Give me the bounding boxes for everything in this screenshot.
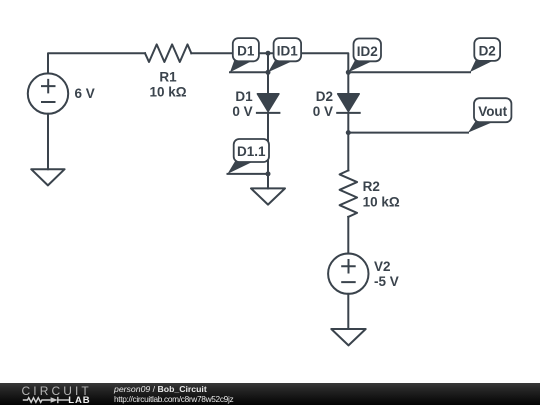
flag D1.1 xyxy=(228,139,270,174)
flag Vout xyxy=(468,98,511,132)
svg-text:D1: D1 xyxy=(235,89,253,104)
resistor R1 xyxy=(145,44,191,62)
diode D1 xyxy=(256,94,281,113)
wire diode D2 to node D xyxy=(347,113,349,170)
wire R2 to V2 xyxy=(347,217,349,254)
diode D2 xyxy=(336,94,361,113)
svg-text:10 kΩ: 10 kΩ xyxy=(149,84,186,99)
wire D2 flag net xyxy=(348,71,470,73)
svg-text:ID2: ID2 xyxy=(357,44,378,59)
voltage source V1 xyxy=(28,73,68,113)
footer bar xyxy=(0,383,540,405)
flag ID2 xyxy=(348,39,381,73)
node Vout junction dot xyxy=(346,130,351,135)
node D1.1 junction dot xyxy=(266,171,271,176)
wire diode D2 branch xyxy=(347,72,349,94)
flag D1 xyxy=(230,38,259,72)
resistor R2 xyxy=(340,170,358,217)
svg-text:D2: D2 xyxy=(316,89,333,104)
CircuitLab logo xyxy=(0,383,100,405)
ground for D1 branch xyxy=(251,188,285,204)
svg-text:-5 V: -5 V xyxy=(374,274,399,289)
svg-text:R1: R1 xyxy=(159,69,177,84)
wire diode D1 to node C xyxy=(267,113,269,188)
svg-text:R2: R2 xyxy=(363,179,380,194)
wire V2 to ground xyxy=(347,294,349,329)
svg-text:0 V: 0 V xyxy=(313,104,333,119)
wire V1 to ground xyxy=(47,114,49,169)
wire Vout flag net xyxy=(348,132,468,134)
ground for V1 xyxy=(31,169,64,185)
ground for V2 xyxy=(331,329,365,345)
svg-text:D1: D1 xyxy=(237,44,255,59)
svg-text:V2: V2 xyxy=(374,259,391,274)
svg-text:0 V: 0 V xyxy=(232,104,252,119)
node B junction dot xyxy=(266,70,271,75)
svg-text:Vout: Vout xyxy=(478,104,507,119)
wire R1 to corner above D2 branch xyxy=(191,53,348,72)
svg-text:6 V: 6 V xyxy=(75,86,95,101)
svg-text:LAB: LAB xyxy=(68,395,90,405)
wire node A down to diode D1 xyxy=(267,53,269,94)
wire D1 flag stub xyxy=(230,71,268,73)
flag D2 xyxy=(470,38,500,72)
node ID2 junction dot xyxy=(346,70,351,75)
footer title text xyxy=(114,384,207,394)
footer url text xyxy=(114,394,233,404)
flag ID1 xyxy=(268,38,301,72)
wire V1 top to R1 xyxy=(48,53,145,73)
svg-text:ID1: ID1 xyxy=(277,44,299,59)
svg-text:D1.1: D1.1 xyxy=(237,144,266,159)
svg-text:D2: D2 xyxy=(479,44,496,59)
node A junction dot xyxy=(266,51,271,56)
wire D1.1 flag stub xyxy=(228,173,269,175)
voltage source V2 xyxy=(328,254,368,294)
svg-text:10 kΩ: 10 kΩ xyxy=(363,194,400,209)
